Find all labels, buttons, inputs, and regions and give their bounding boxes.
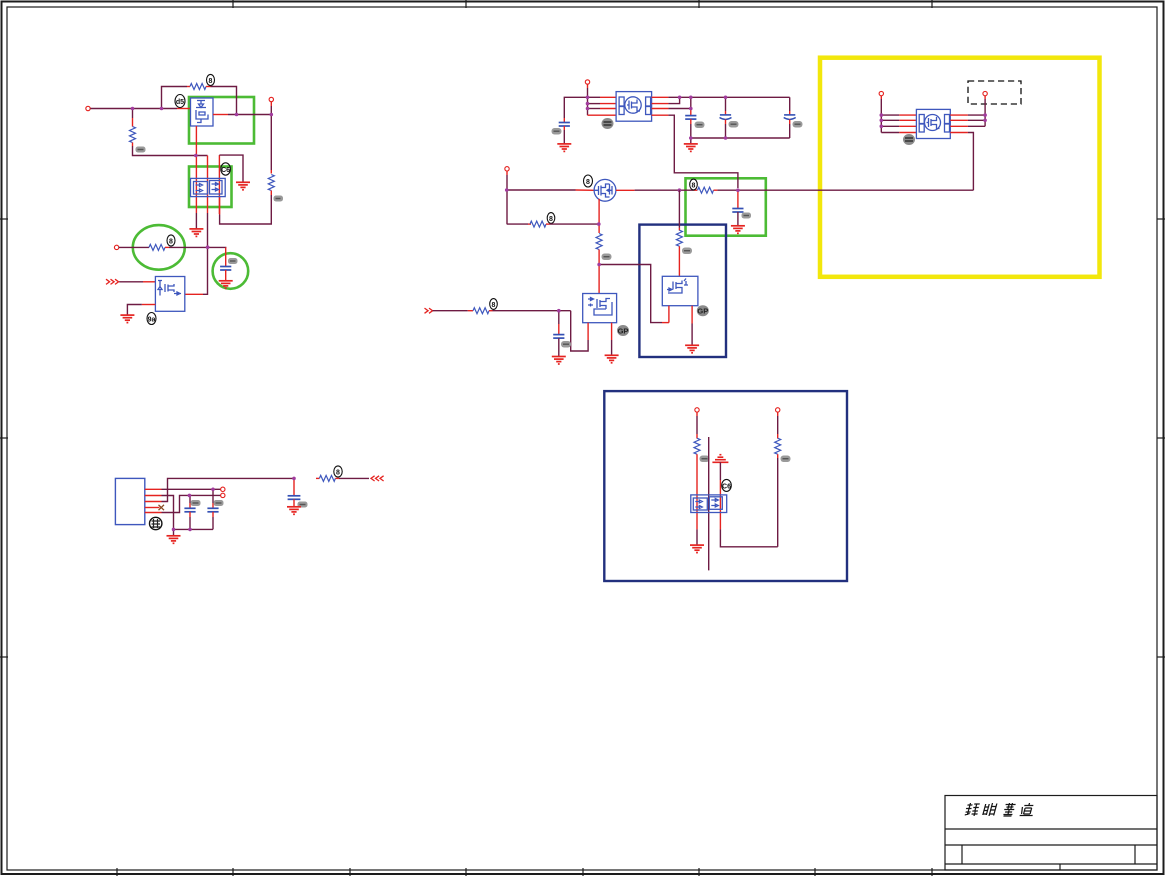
svg-text:GP: GP (618, 327, 629, 336)
svg-text:8: 8 (209, 78, 213, 85)
label R-A3 value (136, 147, 146, 153)
wire pin5 up to port rail (162, 495, 221, 512)
wire R-D1 to U-D1 (678, 246, 680, 276)
capacitor C-B4 branch (789, 97, 791, 115)
wire R-G2 down to loop (777, 454, 779, 547)
resistor R-E1 (in green box) (694, 187, 718, 193)
svg-text:8: 8 (492, 302, 496, 309)
output chevrons <<< (371, 476, 384, 481)
label U-B1 (602, 118, 614, 129)
wire gate input (119, 281, 155, 283)
wire main node rail (507, 189, 595, 191)
capacitor C-B3 polarized (720, 115, 732, 120)
wire rail to output chevrons (339, 477, 369, 479)
label C-B1 (552, 128, 562, 135)
port circle H1 (221, 487, 225, 491)
wire bottom rail of caps (691, 137, 790, 139)
capacitor C-H1 (184, 508, 195, 512)
mosfet U-A1 (191, 98, 214, 126)
ground in navy box 2 (690, 545, 704, 553)
label R-A2 value (274, 196, 284, 202)
label C-C1 (561, 341, 571, 348)
resistor R-C1 (530, 221, 546, 227)
label J1 (150, 517, 162, 529)
wire vertical through dual fet (pin1) (195, 126, 197, 229)
svg-text:9a: 9a (148, 317, 156, 324)
wire U-C2 left pin loop to gate rail (571, 311, 588, 351)
resistor R-G2 vertical (775, 438, 781, 454)
wire cap branch (225, 247, 227, 266)
label C-B3 (729, 121, 739, 128)
ground bottom-left (120, 315, 134, 323)
highlight green box 3 (686, 178, 766, 235)
input chevrons >>> (106, 279, 119, 284)
label C-H1 (191, 500, 201, 506)
capacitor C-A1 (in green circle) (220, 267, 231, 271)
junction dots circuit C (505, 188, 740, 312)
wire output up stub (270, 102, 272, 115)
svg-text:8: 8 (336, 470, 340, 477)
wire U-C2 right pin to ground (611, 323, 613, 355)
port circle F (879, 91, 883, 95)
dual mosfet U-A2 (191, 178, 226, 196)
label C-H2 (214, 500, 224, 506)
capacitor C-E1 branch (737, 190, 739, 208)
mosfet U-D1 (662, 276, 698, 305)
port circle mid-left (505, 167, 509, 171)
wire R-G1 into dual fet (696, 454, 698, 529)
wire port down bus F (880, 96, 882, 133)
junction dots circuit B (586, 96, 728, 140)
svg-text:C6: C6 (722, 483, 731, 490)
port circle H2 (221, 493, 225, 497)
wire Q-C1 source down (598, 199, 600, 233)
highlight yellow box (820, 58, 1100, 277)
svg-text:8: 8 (169, 239, 173, 246)
wire C-H2 down (212, 512, 214, 530)
wire G2 down (777, 412, 779, 438)
resistor R-G1 vertical (694, 438, 700, 454)
ground in navy box 1 (685, 345, 699, 353)
svg-text:8: 8 (549, 216, 553, 223)
wire row1 output rail (668, 96, 789, 98)
capacitor C-H2 branch (212, 489, 214, 508)
wire flipped ground down to fet (719, 462, 721, 529)
ground right of dual fet (236, 182, 250, 190)
wire port down (506, 171, 508, 224)
ground under rail (684, 144, 698, 152)
wire R-C1 to drain node (546, 223, 599, 225)
label Q-A2 (221, 163, 231, 175)
wire row2 tie-up (668, 97, 679, 103)
mosfet Q-C1 (circle style) (594, 179, 616, 201)
wire C-B3 to rail (725, 120, 727, 139)
wire cap branch (558, 311, 560, 335)
port circle G2 (776, 408, 780, 412)
no-connect X on pin4 (159, 505, 165, 510)
wire cross link to navy fet (599, 265, 662, 323)
wire to sense resistor (119, 246, 149, 248)
wire gate lower rail (507, 223, 531, 225)
dashed box (yellow area net stub) (968, 81, 1021, 104)
port circle G1 (695, 408, 699, 412)
wire port down bus (587, 84, 589, 115)
highlight green box 2 (189, 167, 232, 208)
highlight green circle 2 (213, 253, 249, 289)
wire G1 down (696, 412, 698, 438)
junction dots circuit H (172, 477, 296, 532)
wire rail to ground (173, 529, 175, 535)
wire from resistor to output node (211, 87, 237, 115)
wire C-C1 to ground (558, 338, 560, 356)
input port circle lower (114, 245, 118, 249)
capacitor C-H3 (288, 496, 301, 500)
resistor R-A4 (in green circle) (149, 244, 169, 250)
ground under C-A1 (219, 281, 233, 289)
wire rows into U-B1 (588, 97, 617, 115)
junction dots circuit F (880, 113, 987, 128)
wire left pin to ground (696, 529, 698, 544)
ground under pin1 (189, 229, 203, 237)
wire gate input rail (433, 310, 473, 312)
wire vertical pin2 (207, 156, 209, 214)
capacitor C-B3 branch (725, 97, 727, 115)
wire output node (213, 114, 271, 116)
label U-C2 (617, 325, 629, 336)
ground under C-C1 (552, 357, 566, 365)
wire row4 out to main rail (968, 133, 974, 191)
wire C-H3 to ground (293, 499, 295, 506)
node output port circle (269, 97, 273, 101)
ground under C-H3 (287, 507, 301, 515)
label Q-C1 (584, 175, 593, 187)
capacitor C-B4 polarized (784, 115, 796, 120)
resistor R-A1 (top feedback) (187, 84, 211, 90)
label R-G2 (781, 456, 791, 463)
connector J1 (115, 478, 144, 524)
capacitor C-H1 branch (189, 495, 191, 508)
label U-F1 (903, 134, 915, 145)
wire R-C3 to cap node (489, 310, 571, 312)
wire input rail (90, 108, 190, 110)
wire C-E1 to ground (737, 212, 739, 226)
highlight green circle 1 (133, 225, 185, 270)
wire U-D1 left pin down (668, 306, 670, 323)
wire C-B2 to rail (690, 119, 692, 138)
ground under C-E1 (731, 226, 745, 234)
resistor R-C2 vertical (596, 234, 602, 250)
wire rail to yellow box (717, 189, 973, 191)
label R-A4 (167, 235, 175, 246)
wire sense rail (169, 246, 226, 249)
junction dots circuit A (131, 107, 273, 249)
wire from node down (678, 190, 680, 230)
highlight navy box 1 (639, 225, 726, 357)
wire cap to ground (225, 270, 227, 281)
label U-D1 (697, 305, 709, 316)
wire row3 tie (668, 108, 690, 110)
label C-B4 (793, 121, 803, 128)
input chevrons >> (425, 308, 433, 313)
svg-text:8: 8 (586, 179, 590, 186)
ground under C-B1 (557, 144, 571, 152)
wire U-D1 right pin to ground (691, 306, 693, 345)
label Q-A1 (175, 95, 185, 108)
wire U-A3 source to ground (127, 305, 155, 315)
dual mosfet U-G1 (691, 495, 727, 513)
highlight navy box 2 (604, 391, 847, 581)
ground under connector rail (167, 536, 181, 544)
wire ground rail H (174, 528, 214, 530)
label C-H3 (298, 502, 308, 508)
wire right branch down (270, 115, 272, 174)
wire rail to ground (690, 138, 692, 144)
label R-H1 (334, 466, 342, 477)
wire rows out of U-F1 (950, 115, 968, 132)
wire pin2 down-left to Q-A4 (185, 213, 208, 294)
wire C-B4 to rail (789, 120, 791, 139)
wire right pin loop to R-G2 (720, 529, 777, 546)
highlight green box 1 (189, 97, 254, 144)
wire long vertical stub (708, 437, 710, 570)
mosfet U-B1 (616, 92, 652, 122)
resistor R-A2 (right vertical) (268, 175, 274, 191)
wire row1 left + bypass branch (564, 97, 587, 122)
port circle F2 in dashed box (983, 91, 987, 95)
port circle top (585, 80, 589, 84)
ground under U-C2 (605, 355, 619, 363)
resistor R-H1 on long rail (316, 475, 339, 481)
label R-C2 (602, 254, 612, 261)
wire feedback loop top (162, 87, 188, 109)
capacitor C-B1 (559, 123, 570, 127)
capacitor C-C1 (553, 335, 564, 339)
label R-C1 (547, 213, 555, 224)
label Q-A4 (147, 313, 156, 325)
resistor R-D1 vertical (676, 230, 682, 246)
label R-A1 (207, 74, 215, 85)
wire R-C2 to gate node (598, 250, 600, 294)
label R-C3 (490, 299, 498, 310)
label R-E1 (690, 179, 698, 190)
flipped ground (power symbol) (712, 455, 728, 463)
capacitor C-H2 (207, 508, 218, 512)
resistor R-C3 (473, 308, 489, 314)
wire cap branch C-B2 (690, 97, 692, 115)
capacitor C-H3 branch (293, 478, 295, 495)
wire row4 to switch node (668, 115, 738, 188)
label R-D1 (682, 248, 692, 255)
label C-A1 (228, 258, 238, 264)
svg-text:8: 8 (692, 183, 696, 190)
capacitor C-B2 (685, 116, 696, 120)
mosfet U-F1 (916, 109, 950, 138)
wire rows into U-F1 (881, 115, 899, 132)
connector pin stubs (145, 489, 162, 512)
svg-text:C6: C6 (221, 167, 230, 174)
svg-text:d5: d5 (176, 99, 184, 106)
wire F2 down (984, 96, 986, 127)
wire pin2 down to ground rail (162, 496, 174, 530)
wire C-B1 to ground (563, 126, 565, 144)
wire pin1 to port (162, 488, 221, 490)
label C-B2 (695, 122, 705, 129)
wire node to divider (616, 189, 694, 191)
wire right branch to lower loop (220, 191, 272, 225)
capacitor C-E1 (732, 209, 743, 213)
label R-G1 (700, 456, 710, 463)
svg-text:GP: GP (697, 307, 708, 316)
wire C-H1 down (189, 512, 191, 530)
resistor R-A3 (left divider) (130, 109, 136, 147)
wire vertical pin3 (219, 155, 243, 214)
label U-G1 (722, 479, 732, 491)
label C-E1 (742, 213, 752, 219)
node input port circle (86, 106, 90, 110)
mosfet U-A3 (155, 277, 184, 312)
wire rows out of U-B1 (652, 97, 669, 115)
company name 緯創資通 (drawn strokes) (964, 803, 1036, 816)
wire pin3 up to long rail (162, 478, 295, 501)
title block (945, 796, 1157, 871)
mosfet U-C2 (583, 294, 617, 323)
wire divider to gate rail (133, 146, 208, 156)
